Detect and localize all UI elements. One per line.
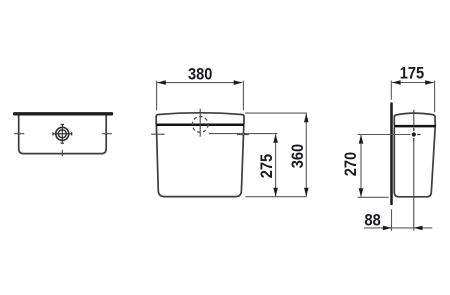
wall plate bar (side view) (390, 102, 393, 205)
dimension line 380 (157, 82, 242, 84)
extension line left (175) (390, 81, 392, 100)
extension line right (175) (434, 81, 436, 113)
svg-text:275: 275 (258, 154, 276, 179)
dimension line 270 (360, 135, 362, 197)
mechanism center mark (side view) (412, 132, 416, 136)
bottom centerline tick (top view) (61, 150, 63, 156)
extension line left (380) (156, 81, 158, 111)
extension line below wall bar (88) (391, 209, 393, 231)
right centerline tick (top view) (102, 133, 112, 135)
svg-text:380: 380 (188, 66, 213, 84)
tick crossing right edge (front view) (237, 134, 249, 136)
extension line 275 (from button to dim line) (209, 133, 277, 135)
svg-text:270: 270 (342, 152, 360, 177)
extension line right (380) (242, 81, 244, 111)
svg-text:360: 360 (289, 144, 307, 169)
vertical centerline (side view) (413, 110, 415, 126)
extension line bottom (270) (358, 196, 389, 198)
cistern outline (top view) (19, 116, 107, 154)
flush button crosshair (top view) (53, 124, 73, 144)
extension line 270 (to center mark) (358, 134, 411, 136)
flush button hidden circle (front view) (192, 117, 208, 133)
left centerline tick (top view) (14, 133, 24, 135)
vertical centerline (front view) (199, 109, 201, 137)
svg-text:88: 88 (364, 211, 380, 229)
cistern body (front view) (156, 126, 243, 197)
svg-text:175: 175 (400, 65, 425, 83)
bottom baseline (front view) (245, 196, 307, 198)
dimension line 88 with outside arrows (364, 227, 432, 229)
cistern lid (side view) (394, 113, 435, 125)
lid joint line (side view) (394, 125, 436, 128)
wall bar (top view) (13, 112, 113, 115)
dimension line 175 (392, 82, 434, 84)
cistern lid (front view) (156, 113, 244, 124)
extension line top (360) (245, 112, 307, 114)
left centerline tick (front view) (151, 133, 164, 135)
dimension line 360 (305, 114, 307, 197)
dimension line 275 (275, 134, 277, 196)
cistern body (side view) (394, 127, 435, 197)
lid joint line (front view) (156, 123, 245, 126)
